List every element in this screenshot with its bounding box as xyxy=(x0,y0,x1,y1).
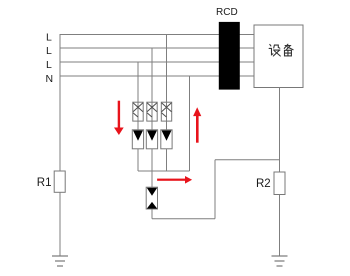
ground (left) xyxy=(52,256,68,266)
svg-text:N: N xyxy=(46,73,54,85)
wire SPD2 to line L2 xyxy=(151,48,153,130)
current arrow right (red) xyxy=(157,176,192,184)
wire SPD3 to line L1 xyxy=(166,35,168,130)
wire R2 to ground xyxy=(279,195,281,257)
svg-text:L: L xyxy=(46,32,52,44)
wire line L1 xyxy=(60,34,254,36)
wire SPD common bus xyxy=(138,170,190,172)
备 xyxy=(284,44,293,56)
svg-text:L: L xyxy=(46,59,52,71)
wire N tap down to bus xyxy=(189,76,191,171)
varistor SPD3 (box with down triangle) xyxy=(161,130,172,149)
wire to R2 branch xyxy=(215,159,280,161)
varistor SPD2 (box with down triangle) xyxy=(146,130,157,149)
surge arrester SPD3 (box with X) xyxy=(161,102,171,121)
varistor SPD1 (box with down triangle) xyxy=(132,130,143,149)
svg-text:RCD: RCD xyxy=(216,7,238,18)
current arrow down (red) xyxy=(114,101,124,135)
equipment label 设备 (drawn strokes) xyxy=(269,44,293,56)
wire bus to gas discharge tube xyxy=(151,171,153,187)
equipment box xyxy=(254,25,303,88)
RCD breaker (black block) xyxy=(219,22,240,90)
svg-text:R1: R1 xyxy=(37,177,52,189)
current arrow up (red) xyxy=(193,107,201,143)
wire line L3 xyxy=(60,61,254,63)
resistor R1 xyxy=(54,171,65,192)
surge arrester SPD1 (box with X) xyxy=(133,102,143,121)
svg-text:R2: R2 xyxy=(256,178,271,190)
wire SPD3 to bus xyxy=(166,149,168,171)
resistor R2 xyxy=(274,172,285,195)
svg-text:L: L xyxy=(46,45,52,57)
wire equipment to R2 xyxy=(279,88,281,173)
wire bottom horizontal xyxy=(152,218,215,220)
wire GDT down xyxy=(151,209,153,219)
wire R1 to ground xyxy=(59,192,61,256)
wire SPD2 to bus xyxy=(151,149,153,171)
wire SPD1 to bus xyxy=(137,149,139,171)
wire line N xyxy=(60,75,254,77)
设 xyxy=(269,44,280,56)
wire riser up xyxy=(214,160,216,219)
wire line L2 xyxy=(60,47,254,49)
surge arrester SPD2 (box with X) xyxy=(147,102,157,121)
ground (right) xyxy=(272,256,288,266)
wire SPD1 to line L3 xyxy=(137,62,139,130)
gas discharge tube (box with two facing triangles) xyxy=(146,187,157,209)
wire left bus down to R1 xyxy=(59,34,61,171)
